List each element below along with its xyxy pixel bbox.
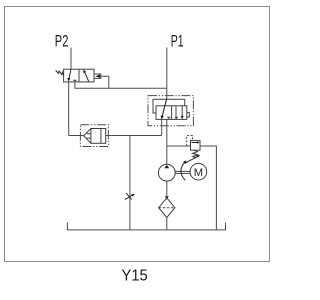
check valve CV1 enclosure: [80, 125, 108, 147]
valve V2 back square: [153, 99, 185, 113]
valve V1 divider: [78, 69, 80, 82]
wire relief outlet: [200, 146, 216, 230]
valve V2 right flow path: [181, 106, 184, 120]
valve V2 blocked port 1: [167, 117, 170, 119]
valve V1 body: [64, 69, 94, 82]
wire filter to tank: [166, 218, 168, 230]
wire throttle branch: [129, 136, 131, 230]
valve V1 left blocked port: [73, 80, 76, 82]
wire P1: [166, 48, 168, 99]
valve V2 blocked port 2: [175, 117, 178, 119]
check valve CV1 sleeve divider: [100, 129, 102, 144]
motor M1 circle: [190, 163, 207, 180]
filter inlet arrow: [165, 196, 169, 199]
wire V2 to pump: [166, 119, 168, 164]
valve V2 divider 2: [175, 106, 177, 120]
throttle RD1: [125, 193, 135, 199]
wire manifold horizontal: [69, 135, 162, 137]
wire V1 sense to P1: [75, 82, 167, 88]
pump P1 circle: [158, 164, 175, 181]
wire P2: [70, 48, 72, 70]
relief valve RV1 spring: [193, 150, 198, 158]
valve V2 main body: [156, 106, 187, 120]
tank reservoir: [67, 223, 225, 230]
wire V1 pilot: [101, 76, 109, 88]
valve V1 spring: [56, 70, 64, 75]
relief valve RV1 flow arrow: [192, 141, 200, 143]
wire relief branch: [167, 145, 191, 147]
rotation arrow: [181, 160, 187, 180]
svg-text:P1: P1: [171, 32, 184, 50]
svg-text:M: M: [194, 167, 203, 179]
valve V2 divider 1: [171, 106, 173, 120]
pump P1 outlet triangle: [164, 165, 169, 168]
motor shaft: [175, 171, 190, 173]
check valve CV1 poppet cone: [84, 129, 91, 144]
valve V2 enclosure: [148, 96, 193, 126]
svg-text:Y15: Y15: [122, 268, 148, 285]
valve V1 right flow path: [83, 69, 89, 81]
wire V1 output: [68, 82, 70, 136]
relief valve RV1 body: [191, 141, 201, 151]
wire pump to filter: [166, 181, 168, 196]
relief valve RV1 adjust arrow: [185, 155, 200, 163]
valve V2 flow path diagonal: [161, 98, 167, 119]
check valve CV1 inner lines: [87, 134, 91, 138]
wire V2 left port down: [161, 119, 163, 135]
check valve CV1 sleeve: [91, 129, 106, 144]
filter F1 element dashed: [159, 207, 175, 209]
relief valve RV1 pilot dashed: [187, 136, 193, 147]
filter F1 diamond: [159, 198, 175, 218]
valve V2 pilot tab: [187, 112, 190, 117]
valve V1 left flow path: [67, 69, 71, 81]
svg-text:P2: P2: [55, 33, 69, 51]
valve V1 pilot actuator: [94, 74, 101, 78]
